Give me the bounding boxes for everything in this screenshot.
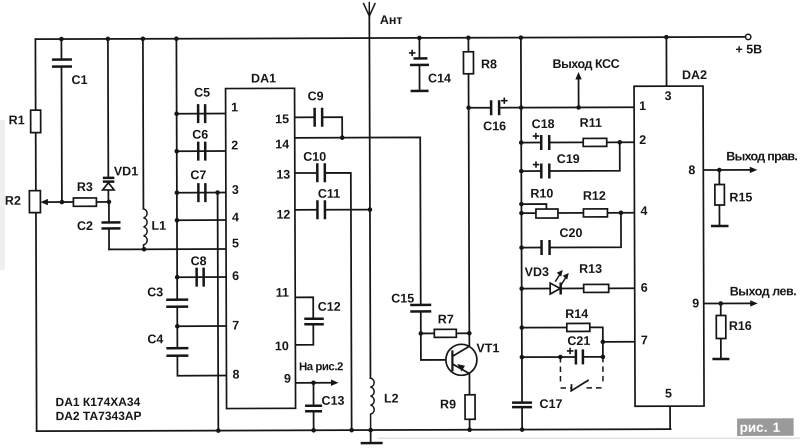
svg-text:1: 1 [231, 100, 238, 114]
svg-text:DA2 ТА7343АР: DA2 ТА7343АР [56, 409, 142, 423]
svg-text:1: 1 [639, 99, 646, 113]
svg-text:3: 3 [232, 183, 239, 197]
svg-text:R2: R2 [5, 194, 21, 208]
svg-text:DA1: DA1 [251, 71, 276, 85]
svg-text:10: 10 [275, 339, 289, 353]
svg-text:R14: R14 [565, 307, 588, 321]
svg-text:8: 8 [232, 368, 239, 382]
svg-text:+ 5В: + 5В [735, 42, 762, 56]
svg-text:9: 9 [692, 296, 699, 310]
svg-text:C5: C5 [194, 86, 210, 100]
svg-text:C12: C12 [318, 300, 341, 314]
svg-text:VD3: VD3 [525, 265, 549, 279]
svg-text:R12: R12 [583, 189, 606, 203]
svg-text:C16: C16 [483, 119, 506, 133]
svg-text:3: 3 [665, 89, 672, 103]
svg-text:C1: C1 [72, 73, 88, 87]
svg-text:C10: C10 [303, 150, 326, 164]
svg-text:C2: C2 [77, 219, 93, 233]
svg-text:R1: R1 [9, 113, 25, 127]
svg-text:8: 8 [688, 163, 695, 177]
svg-text:R15: R15 [729, 190, 752, 204]
svg-text:VD1: VD1 [114, 164, 138, 178]
svg-text:6: 6 [232, 269, 239, 283]
svg-text:C19: C19 [557, 152, 580, 166]
svg-text:7: 7 [232, 319, 239, 333]
svg-text:C14: C14 [428, 71, 451, 85]
svg-text:9: 9 [284, 372, 291, 386]
svg-text:C20: C20 [559, 226, 582, 240]
svg-text:6: 6 [641, 281, 648, 295]
svg-text:C15: C15 [391, 291, 414, 305]
svg-text:C7: C7 [190, 168, 206, 182]
svg-text:R3: R3 [77, 180, 93, 194]
svg-text:4: 4 [232, 210, 239, 224]
svg-text:C6: C6 [192, 128, 208, 142]
svg-text:C21: C21 [567, 334, 590, 348]
svg-text:C11: C11 [318, 187, 340, 201]
svg-text:Выход лев.: Выход лев. [730, 284, 797, 298]
svg-text:R16: R16 [729, 319, 752, 333]
svg-text:L1: L1 [151, 219, 166, 233]
svg-text:На рис.2: На рис.2 [299, 361, 343, 373]
svg-text:5: 5 [232, 236, 239, 250]
svg-text:R8: R8 [481, 57, 497, 71]
svg-text:R9: R9 [440, 397, 456, 411]
svg-text:C8: C8 [191, 254, 207, 268]
svg-text:VT1: VT1 [476, 341, 499, 355]
svg-text:R10: R10 [530, 187, 553, 201]
svg-text:13: 13 [276, 168, 290, 182]
svg-text:C13: C13 [322, 394, 345, 408]
svg-text:рис.: рис. [740, 420, 768, 435]
svg-text:C18: C18 [532, 117, 555, 131]
svg-text:C4: C4 [147, 332, 163, 346]
svg-text:5: 5 [665, 386, 672, 400]
svg-text:R13: R13 [579, 262, 602, 276]
svg-text:14: 14 [275, 137, 289, 151]
svg-text:C3: C3 [147, 285, 163, 299]
svg-text:Выход КСС: Выход КСС [552, 57, 619, 71]
svg-text:11: 11 [276, 286, 289, 300]
svg-text:Выход прав.: Выход прав. [726, 149, 797, 163]
svg-text:7: 7 [641, 333, 648, 347]
svg-text:2: 2 [639, 133, 646, 147]
svg-text:R11: R11 [580, 116, 602, 130]
svg-text:15: 15 [275, 112, 289, 126]
svg-text:DA1 К174ХА34: DA1 К174ХА34 [56, 395, 141, 409]
svg-text:C9: C9 [308, 89, 324, 103]
svg-text:2: 2 [231, 138, 238, 152]
svg-text:DA2: DA2 [682, 68, 707, 82]
svg-text:L2: L2 [384, 392, 399, 406]
svg-text:R7: R7 [438, 312, 454, 326]
svg-text:1: 1 [773, 420, 781, 435]
svg-text:Ант: Ант [380, 13, 403, 27]
svg-text:C17: C17 [540, 397, 563, 411]
svg-text:12: 12 [276, 208, 290, 222]
svg-text:4: 4 [640, 204, 647, 218]
